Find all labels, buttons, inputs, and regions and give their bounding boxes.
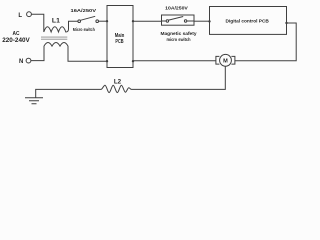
svg-text:Magnetic safety: Magnetic safety bbox=[161, 31, 197, 37]
svg-text:Micro switch: Micro switch bbox=[73, 27, 95, 33]
svg-text:micro switch: micro switch bbox=[167, 37, 191, 43]
svg-text:Digital control PCB: Digital control PCB bbox=[226, 18, 270, 24]
svg-text:L: L bbox=[18, 13, 22, 19]
svg-text:N: N bbox=[19, 59, 23, 65]
svg-text:L1: L1 bbox=[52, 17, 60, 24]
svg-text:PCB: PCB bbox=[115, 39, 123, 45]
svg-text:AC: AC bbox=[13, 31, 20, 37]
svg-text:16A/250V: 16A/250V bbox=[71, 8, 97, 14]
svg-text:220-240V: 220-240V bbox=[2, 38, 30, 44]
svg-text:M: M bbox=[223, 59, 228, 65]
svg-text:L2: L2 bbox=[114, 78, 122, 85]
svg-text:10A/250V: 10A/250V bbox=[165, 5, 189, 11]
